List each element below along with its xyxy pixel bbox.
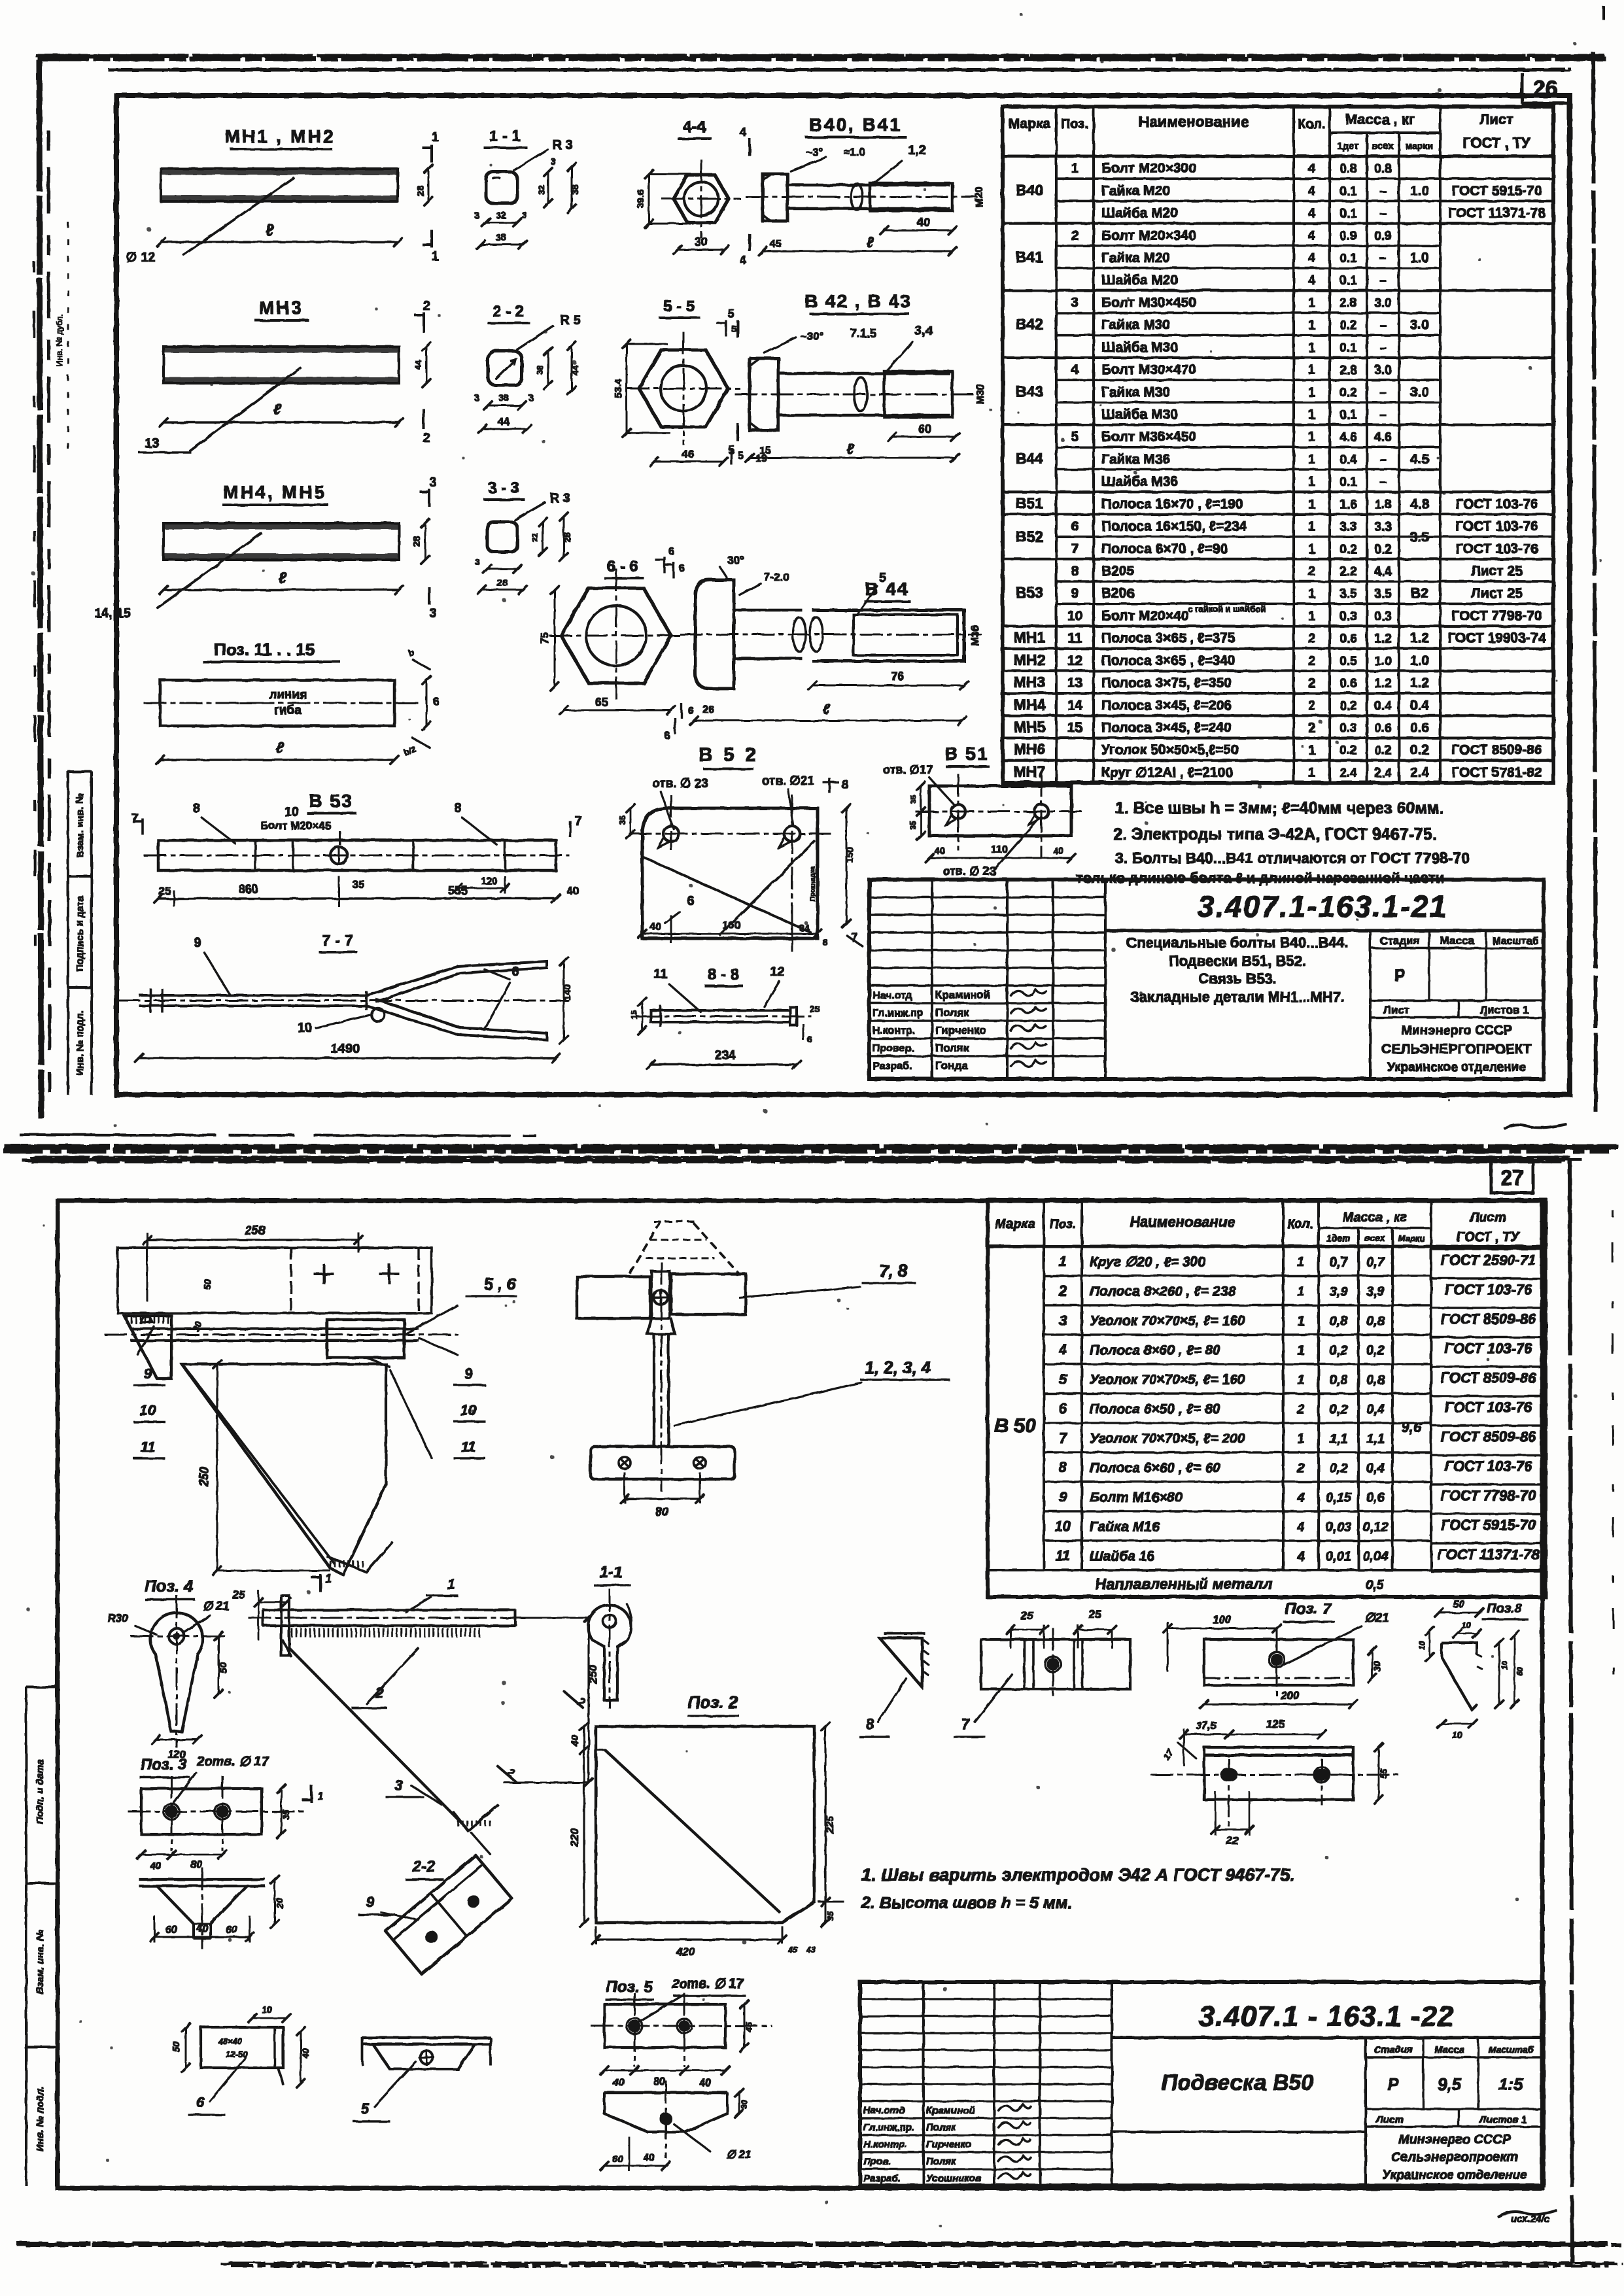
sheet 27 inner frame bbox=[58, 1201, 1542, 2188]
scan border left edge sheet 26 bbox=[39, 60, 41, 1118]
figure plate 7 bbox=[981, 1639, 1130, 1689]
sheet 27 outer top line bbox=[22, 1159, 1565, 1161]
scan border right edge bbox=[1593, 52, 1596, 1112]
sheet 26 left margin strip bbox=[67, 772, 69, 1095]
sheet 27 left margin strip bbox=[26, 1687, 27, 2185]
stamp 27 document number bbox=[1112, 2036, 1544, 2039]
scan border top edge bbox=[38, 57, 1606, 61]
figure bracket 5 bbox=[362, 2036, 491, 2038]
stamp 27 title bbox=[1112, 2131, 1366, 2133]
figure corner angle 8 bbox=[880, 1638, 922, 1687]
stamp 26 document number bbox=[1105, 929, 1544, 932]
sheet 26 inner frame bbox=[116, 95, 1570, 1095]
sheet 27 parts table bbox=[988, 1200, 1546, 1597]
sheet 27 title block stamp bbox=[860, 1982, 1544, 2185]
scan border right edge sheet 27 bbox=[1570, 1159, 1572, 2266]
assembly triangle plate bbox=[182, 1364, 386, 1575]
stamp 27 stage/mass/scale bbox=[1365, 2038, 1367, 2185]
assembly bracket 5-6 bbox=[327, 1320, 404, 1358]
assembly vertical dim 250 bbox=[216, 1364, 218, 1571]
sheet 26 title block stamp bbox=[869, 880, 1544, 1079]
figure 7-8 hanger bbox=[629, 1222, 739, 1274]
assembly angle and bar bbox=[124, 1316, 171, 1379]
sheet 27 page number box 27 bbox=[1491, 1161, 1533, 1193]
figure assembly top-left bbox=[118, 1248, 432, 1313]
scan bottom smudges bbox=[17, 2242, 1610, 2246]
table 27 bottom row weld metal bbox=[988, 1569, 1546, 1571]
figure strap with holes lower right bbox=[1204, 1747, 1353, 1800]
sheet 26 page number box 26 bbox=[1521, 73, 1523, 103]
figure poz 5 bent view bbox=[604, 2091, 727, 2093]
stamp 26 stage/mass/scale bbox=[1370, 931, 1372, 1079]
figure bracket poz 1 bbox=[263, 1609, 515, 1611]
sheet divider smudge bbox=[5, 1144, 1616, 1150]
sheet 26 parts table bbox=[1003, 107, 1553, 783]
figure small plate 6 bbox=[201, 2027, 283, 2068]
figure poz 3 bent view bbox=[139, 1878, 265, 1880]
